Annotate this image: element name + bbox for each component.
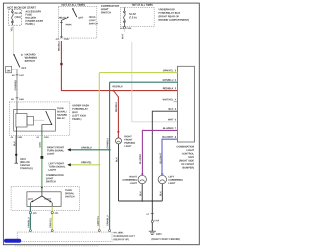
label YEL [11, 27, 13, 32]
label COMBINATION LIGHT SWITCH [101, 5, 119, 13]
wire RED/BLK from light switch to control unit pin 3 [61, 41, 177, 91]
pin label WHT 6 [168, 119, 176, 121]
wire GRN/BLU pin 2 [110, 81, 178, 83]
label TURN SIGNAL SWITCH [65, 189, 74, 197]
under-dash fuse box (dashed) top-left [9, 9, 22, 25]
arrow to left front turn signal light [67, 163, 71, 166]
ground riser to G301 [151, 201, 153, 220]
label GRN/YEL vertical [50, 218, 52, 228]
headlight switch S2 [72, 8, 74, 10]
junction on RED/BLK [113, 90, 115, 92]
label rear harness [114, 232, 135, 241]
connector on GRN wire [41, 156, 44, 159]
pin label RED/BLK 3 [163, 87, 176, 89]
label headlight switch [89, 16, 98, 24]
wire GRN relay to turn signal switch [41, 136, 43, 188]
wire RED/BLK branch to right front parking light [117, 97, 119, 138]
node HOT IN ON OR START [8, 6, 36, 8]
fuse F1 value label [15, 12, 22, 14]
connector labels relay box bottom [11, 137, 14, 138]
combination light switch box (dashed) [58, 7, 97, 38]
label BLU/RED vertical [139, 154, 141, 164]
wire BLU/WHT pin 8 to left cornering light [162, 139, 177, 175]
wire GRN/YEL pin 5 [99, 72, 177, 74]
wire BLK pin 1 to ground riser [152, 111, 177, 201]
wire BLK right cornering light to bus [141, 184, 143, 201]
turn signal switch box (dashed) [11, 187, 80, 211]
turn signal switch S3 [27, 192, 61, 207]
fuse F1 No.15 10A [12, 9, 14, 25]
connector B5 C485 [16, 97, 19, 99]
wire BLK relay to G401 [15, 136, 17, 164]
label WHT [122, 34, 124, 39]
rear harness (dashed flat box) [17, 232, 112, 242]
pin label GRN/YEL 5 [163, 70, 176, 72]
arrow to right front turn signal light [67, 148, 71, 151]
wire WHT fuse to control unit pin 6 [123, 29, 125, 32]
label RED/BLK near junction [113, 86, 123, 88]
watermark logo [4, 239, 21, 243]
connector tick below light switch [60, 36, 63, 38]
fuse F2 No.52 7.5A [124, 7, 126, 26]
wire RED/BLK slant at junction [114, 91, 119, 97]
pin label GRN/BLU 2 [163, 79, 176, 81]
label GRN [39, 143, 41, 148]
underhood fuse box (dashed) [120, 7, 154, 26]
lamp left cornering light [158, 175, 166, 183]
label RED/BLK vertical [115, 102, 117, 112]
label UNDER-DASH FUSE/RELAY BOX [72, 105, 89, 121]
connector on RED/BLK wire [60, 63, 62, 65]
ghost dashed line [15, 245, 99, 247]
wire relay to ground [16, 127, 18, 136]
wire YEL from fuse F1 to hazard switch [13, 25, 15, 54]
relay K1 turn signal/hazard relay [14, 109, 56, 131]
label GRN/BLU vertical right pair [107, 216, 109, 226]
wire hazard switch to relay [16, 69, 18, 102]
wire BLK left cornering light to bus [161, 184, 163, 201]
junction node GRN at turn signal switch [41, 187, 43, 189]
connector C156 [123, 27, 125, 29]
lamp right cornering light [138, 175, 146, 183]
label BLU/WHT vertical [160, 153, 162, 163]
label GRN/BLU vertical (above junction) [107, 138, 109, 148]
label GRN/BLU vertical [28, 218, 30, 228]
wire GRN/YEL from turn signal switch [51, 206, 53, 229]
combination light control unit U1 [177, 66, 194, 142]
connector circles at switch box bottom [29, 212, 31, 214]
ground G401 [15, 154, 17, 156]
label GRN/RED [15, 80, 17, 90]
wire GRN/BLU from turn signal switch [29, 206, 31, 229]
label accessory fuse holder [25, 11, 42, 26]
label RED/BLK (vertical) [58, 41, 60, 51]
node HOT AT ALL TIMES (right) [132, 4, 153, 6]
under-dash fuse/relay box (dashed) containing relay [9, 102, 70, 136]
ground G301 [151, 223, 153, 231]
label BLK [14, 141, 16, 146]
connector circles into rear harness [29, 230, 31, 232]
wire GRN/YEL to left front turn signal arrow [69, 164, 100, 166]
label COMBINATION LIGHT SWITCH (bottom) [46, 174, 63, 182]
relay K1 contact blade [46, 111, 52, 124]
label COMBINATION LIGHT CONTROL UNIT [177, 146, 194, 169]
wire BLU/RED pin 7 to right cornering light [142, 130, 177, 175]
connector tick C417 [16, 74, 19, 76]
label TURN SIGNAL/HAZARD RELAY [57, 107, 67, 119]
ground bus [119, 200, 163, 202]
label UNDERHOOD FUSE/RELAY BOX [159, 8, 189, 21]
pin 4 stub WHT/YEL [174, 101, 178, 103]
wire GRN/BLU to right front turn signal arrow [69, 149, 110, 151]
connector C416 [151, 220, 153, 222]
node HOT AT ALL TIMES (middle) [62, 4, 85, 6]
wire relay coil feed [16, 102, 18, 114]
hazard warning switch S1 [6, 54, 27, 73]
lamp right front parking light [116, 138, 122, 144]
label HAZARD WARNING SWITCH [25, 54, 37, 62]
wire BLK parking light to ground bus [118, 144, 120, 201]
label GRN/YEL vertical right pair [97, 216, 99, 226]
connector tick on RED/BLK [117, 131, 120, 133]
